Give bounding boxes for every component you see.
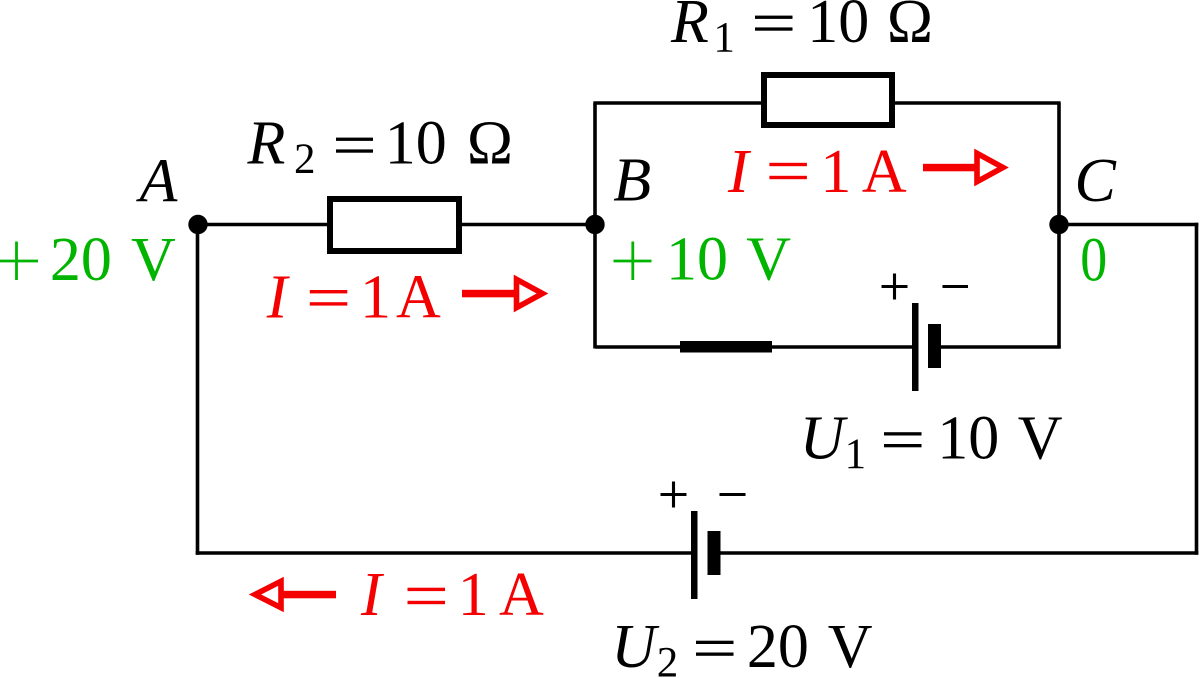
svg-text:20: 20 xyxy=(50,226,112,294)
svg-text:Ω: Ω xyxy=(467,110,513,178)
svg-text:V: V xyxy=(1018,405,1063,473)
svg-text:U: U xyxy=(800,405,849,473)
svg-text:I: I xyxy=(266,264,291,332)
svg-text:A: A xyxy=(136,148,179,216)
svg-text:10: 10 xyxy=(937,405,999,473)
svg-text:20: 20 xyxy=(747,613,809,678)
svg-text:A: A xyxy=(396,264,441,332)
svg-text:V: V xyxy=(828,613,873,678)
svg-text:V: V xyxy=(131,226,176,294)
svg-text:V: V xyxy=(746,226,791,294)
svg-text:1: 1 xyxy=(458,561,489,629)
svg-text:2: 2 xyxy=(657,640,679,678)
svg-text:I: I xyxy=(360,561,385,629)
svg-text:2: 2 xyxy=(294,136,316,183)
svg-text:R: R xyxy=(670,0,709,56)
svg-text:10: 10 xyxy=(807,0,869,56)
svg-text:Ω: Ω xyxy=(887,0,933,56)
svg-text:A: A xyxy=(862,138,907,206)
svg-text:C: C xyxy=(1075,147,1117,215)
svg-text:10: 10 xyxy=(385,110,447,178)
svg-text:10: 10 xyxy=(666,226,728,294)
svg-text:1: 1 xyxy=(820,138,851,206)
svg-text:A: A xyxy=(499,561,544,629)
svg-text:R: R xyxy=(247,110,286,178)
svg-text:1: 1 xyxy=(360,264,391,332)
svg-text:I: I xyxy=(727,138,752,206)
svg-text:B: B xyxy=(613,147,651,215)
svg-text:1: 1 xyxy=(845,431,867,478)
svg-text:1: 1 xyxy=(713,15,735,62)
svg-text:0: 0 xyxy=(1080,225,1107,294)
svg-text:U: U xyxy=(611,613,660,678)
